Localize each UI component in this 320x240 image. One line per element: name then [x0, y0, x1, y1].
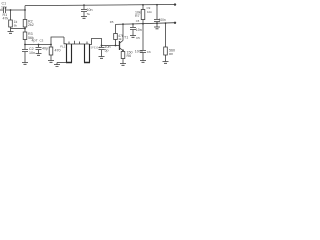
capacitor C5 [130, 24, 136, 36]
resistor R1 [9, 20, 13, 27]
ground filter bus [54, 63, 60, 67]
wire supply rail +UB top [25, 5, 176, 6]
wire horizontal mid-left [25, 44, 51, 46]
ground below R8 [163, 62, 169, 64]
transistor T1 [119, 41, 121, 50]
filter FL2 box [85, 44, 90, 63]
ground below C6 [140, 61, 146, 63]
svg-text:100n: 100n [135, 50, 143, 54]
node junction R7 top [142, 4, 144, 6]
resistor R2 [23, 20, 27, 28]
svg-text:1k: 1k [118, 37, 122, 41]
node junction C5 [132, 23, 134, 25]
capacitor C2 [22, 49, 28, 51]
capacitor C4 shunt [99, 46, 105, 57]
node junction C7 bus [156, 22, 158, 24]
node junction shunt cap [38, 44, 40, 46]
ground below C8 [81, 17, 87, 19]
resistor R6 emitter [122, 50, 124, 51]
svg-text:R7: R7 [135, 14, 140, 18]
ground below C5 [130, 36, 136, 38]
svg-text:40p: 40p [42, 46, 48, 50]
node junction input/R1 [10, 9, 12, 11]
resistor R5 [114, 34, 118, 40]
wire R1 vertical [10, 10, 12, 32]
node junction C7 top [156, 4, 158, 6]
svg-text:10n: 10n [1, 6, 7, 10]
svg-text:C3: C3 [40, 38, 44, 42]
capacitor C1 (input coupling) [3, 7, 5, 13]
svg-text:100n: 100n [159, 18, 166, 22]
ground below C4 [99, 57, 105, 59]
svg-text:R8: R8 [169, 52, 173, 56]
wire bias crosslink [11, 28, 26, 30]
wire R5 vertical [115, 24, 117, 45]
svg-text:47k: 47k [3, 16, 9, 20]
svg-text:FL1: FL1 [60, 45, 66, 49]
node junction input/main vertical [24, 9, 26, 11]
ground below C7 [154, 27, 160, 29]
filter FL1 box [67, 44, 72, 63]
capacitor C3 shunt [36, 45, 42, 54]
wire FL1-FL2 link [69, 41, 87, 44]
capacitor C6 [140, 50, 146, 60]
node collector bus terminal [174, 22, 176, 24]
wire filter feed up-over [51, 37, 67, 45]
capacitor C8 rail decoupling [81, 5, 87, 16]
resistor R4 [50, 45, 52, 48]
node junction bias [24, 28, 26, 30]
svg-text:R6: R6 [127, 54, 132, 58]
svg-text:Ta: Ta [87, 12, 91, 16]
resistor R8 [165, 23, 167, 47]
wire collector bus [116, 23, 177, 25]
svg-text:470: 470 [55, 48, 61, 52]
svg-text:10n: 10n [136, 28, 142, 32]
ground below C2 [22, 63, 28, 65]
svg-text:4p7: 4p7 [32, 39, 38, 43]
svg-text:SFE10.7: SFE10.7 [91, 47, 101, 50]
node junction R7 bus [142, 23, 144, 25]
ground below R1 [8, 32, 14, 34]
wire main left vertical [24, 6, 26, 63]
resistor R3 [23, 32, 27, 40]
resistor R7 [142, 5, 144, 10]
node junction emitter left [24, 44, 26, 46]
node supply rail terminal [174, 3, 176, 5]
svg-text:6k: 6k [14, 24, 18, 28]
capacitor C7 decoupling [154, 5, 160, 27]
node junction R8 top [165, 22, 167, 24]
wire filter ground bus [57, 62, 67, 64]
ground below R6 [120, 64, 126, 66]
node emitter junction [122, 49, 124, 51]
svg-text:10n: 10n [147, 10, 152, 14]
svg-text:C5: C5 [136, 36, 140, 40]
svg-text:5p: 5p [105, 48, 109, 52]
svg-text:R5: R5 [110, 20, 114, 24]
svg-text:2k2: 2k2 [28, 23, 34, 27]
node junction base divider [115, 45, 117, 47]
svg-text:C6: C6 [147, 50, 151, 54]
wire FL2 output jog [90, 39, 120, 46]
svg-text:T1: T1 [124, 36, 128, 40]
node junction C8 top [83, 4, 85, 6]
svg-text:10n: 10n [29, 51, 35, 55]
node junction C4 [101, 45, 103, 47]
ground below C3 [36, 54, 42, 56]
ground below R4 [48, 61, 54, 63]
svg-text:C5: C5 [136, 19, 140, 23]
wire input line [0, 9, 25, 11]
node junction R4 top [50, 44, 52, 46]
